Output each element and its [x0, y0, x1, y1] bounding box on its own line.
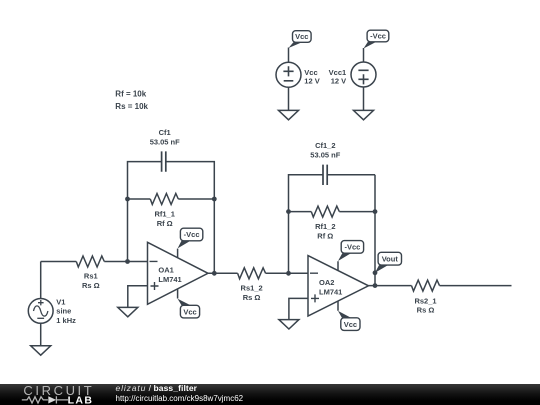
svg-text:53.05 nF: 53.05 nF [150, 137, 180, 146]
svg-text:Vcc: Vcc [304, 68, 317, 77]
svg-text:OA1: OA1 [158, 266, 173, 275]
svg-text:elizatu / bass_filter: elizatu / bass_filter [116, 383, 198, 393]
svg-text:OA2: OA2 [319, 278, 334, 287]
svg-text:Rf1_2: Rf1_2 [315, 222, 335, 231]
svg-text:LM741: LM741 [319, 287, 342, 296]
svg-text:Rs Ω: Rs Ω [417, 306, 435, 315]
svg-text:Rs2_1: Rs2_1 [414, 296, 436, 305]
svg-text:Vcc: Vcc [183, 307, 196, 316]
svg-text:53.05 nF: 53.05 nF [310, 150, 340, 159]
svg-text:Rs1: Rs1 [84, 271, 98, 280]
svg-text:-Vcc: -Vcc [370, 32, 386, 41]
svg-text:LM741: LM741 [158, 275, 181, 284]
svg-text:V1: V1 [56, 297, 65, 306]
svg-text:Vout: Vout [382, 254, 399, 263]
svg-text:Rf = 10k: Rf = 10k [115, 90, 146, 99]
svg-text:Rs Ω: Rs Ω [82, 281, 100, 290]
svg-text:Rf1_1: Rf1_1 [154, 210, 174, 219]
svg-text:Vcc: Vcc [344, 320, 357, 329]
svg-text:Rf Ω: Rf Ω [317, 232, 333, 241]
svg-text:Cf1: Cf1 [159, 128, 171, 137]
svg-text:-Vcc: -Vcc [184, 230, 200, 239]
svg-text:Rf Ω: Rf Ω [157, 219, 173, 228]
svg-text:Vcc1: Vcc1 [329, 68, 347, 77]
svg-text:Rs1_2: Rs1_2 [241, 284, 263, 293]
svg-text:12 V: 12 V [331, 77, 346, 86]
svg-text:-Vcc: -Vcc [344, 243, 360, 252]
svg-text:Rs = 10k: Rs = 10k [115, 102, 148, 111]
svg-text:LAB: LAB [68, 394, 94, 405]
svg-text:http://circuitlab.com/ck9s8w7v: http://circuitlab.com/ck9s8w7vjmc62 [116, 394, 244, 403]
svg-text:sine: sine [56, 307, 71, 316]
svg-text:Cf1_2: Cf1_2 [315, 141, 335, 150]
svg-text:Vcc: Vcc [295, 32, 308, 41]
svg-text:Rs Ω: Rs Ω [243, 293, 261, 302]
svg-text:12 V: 12 V [304, 77, 319, 86]
svg-text:1 kHz: 1 kHz [56, 316, 76, 325]
